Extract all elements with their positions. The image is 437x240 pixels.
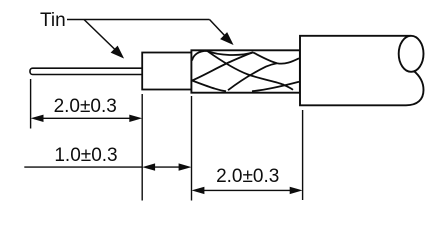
dielectric <box>142 53 191 90</box>
braid strand 6 bottom-left leaf <box>192 81 226 92</box>
leader line from Tin <box>67 19 210 21</box>
svg-text:1.0±0.3: 1.0±0.3 <box>54 145 117 166</box>
dimension 1 right arrowhead <box>129 115 142 122</box>
braid strand 3 top sag <box>207 51 253 55</box>
leader arrow to center conductor <box>84 20 123 58</box>
braid strand 2 rising diagonal <box>192 52 253 80</box>
dimension 2 right arrowhead <box>179 163 192 170</box>
dimension 3 right arrowhead <box>290 187 303 194</box>
center conductor <box>30 68 144 74</box>
extension line V1 at conductor tip <box>30 79 32 129</box>
jacket end face ellipse <box>399 36 424 72</box>
dimension 3 left arrowhead <box>192 187 205 194</box>
braid strand 7 bottom-right arc <box>252 82 299 92</box>
svg-text:2.0±0.3: 2.0±0.3 <box>54 96 117 117</box>
dimension 1 left arrowhead <box>31 115 44 122</box>
dimension 3 line <box>202 189 292 191</box>
extension line V3 at braid start <box>191 96 193 201</box>
jacket body <box>300 36 424 106</box>
braid strand 5 mid rising <box>228 63 277 90</box>
svg-text:Tin: Tin <box>40 10 66 31</box>
dimension 2 leader line <box>24 166 142 168</box>
dimension 2 arrow shaft <box>152 166 182 168</box>
dimension 1 line <box>41 117 132 119</box>
braid strand 4 top-right vee <box>253 52 299 63</box>
leader arrow to braid <box>210 20 233 45</box>
dimension 2 left arrowhead <box>142 163 155 170</box>
braid shield outline <box>191 50 300 92</box>
extension line V4 at jacket start <box>302 110 304 200</box>
svg-text:2.0±0.3: 2.0±0.3 <box>216 166 279 187</box>
extension line V2 at dielectric start <box>141 94 143 201</box>
braid strand 1 main diagonal <box>192 51 293 90</box>
